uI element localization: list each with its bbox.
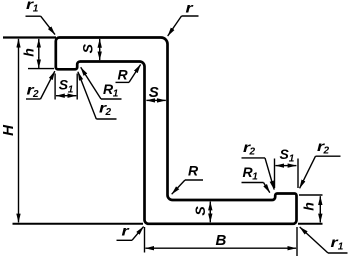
h extension line (right lip top) [299, 194, 323, 196]
leader R bottom [185, 179, 203, 181]
svg-text:2: 2 [249, 147, 256, 158]
dimension S1 (right lip) extension lines [274, 159, 276, 189]
leader R top [116, 81, 130, 83]
svg-text:2: 2 [105, 107, 112, 118]
dimension B line with arrows [145, 247, 220, 249]
leader R1 right [242, 182, 264, 184]
svg-text:S: S [192, 206, 208, 216]
svg-text:h: h [21, 48, 37, 57]
dimension h (left lip) [38, 39, 40, 50]
svg-text:R: R [188, 163, 199, 179]
leader r top-right [182, 15, 199, 17]
leader r2 right-outer [316, 155, 341, 157]
svg-text:S: S [79, 43, 95, 53]
svg-text:R: R [118, 67, 129, 83]
top extension line (left of top-left corner) [3, 36, 56, 38]
bottom extension line (right of bottom-right corner) [298, 223, 323, 225]
bottom extension line (left of bottom-left corner) [13, 223, 144, 225]
svg-text:1: 1 [252, 172, 258, 183]
svg-text:h: h [301, 202, 317, 211]
svg-text:2: 2 [323, 146, 330, 157]
leader r1 top-left [26, 15, 41, 17]
leader r1 (bottom-right) [328, 252, 348, 254]
svg-text:1: 1 [338, 242, 344, 253]
svg-text:S: S [149, 84, 159, 101]
dimension S (top flange) [99, 39, 101, 50]
svg-text:1: 1 [68, 85, 74, 96]
dimension S1 (right lip) arrows [275, 165, 286, 167]
leader r2 left [26, 98, 41, 100]
svg-text:B: B [216, 232, 227, 249]
dimension S1 (left lip) extension lines [54, 74, 56, 100]
svg-text:1: 1 [113, 89, 119, 100]
svg-text:1: 1 [33, 4, 39, 15]
profile outline (Z-section sheet) [56, 38, 297, 224]
leader r2 inner [96, 118, 116, 120]
dimension B extension lines [144, 227, 146, 253]
h extension line (lip bottom, left) [28, 68, 54, 70]
leader r2 right-inner [242, 157, 266, 159]
dimension h (right lip) [319, 196, 321, 205]
leader R1 left [101, 98, 122, 100]
dimension S (web) arrows [146, 99, 156, 101]
svg-text:H: H [0, 124, 17, 136]
svg-text:1: 1 [289, 154, 295, 165]
leader r bottom-left [117, 239, 133, 241]
dimension S (bottom flange) [209, 202, 211, 212]
dimension H line [18, 39, 20, 48]
dimension S1 (left lip) arrows [56, 95, 66, 97]
